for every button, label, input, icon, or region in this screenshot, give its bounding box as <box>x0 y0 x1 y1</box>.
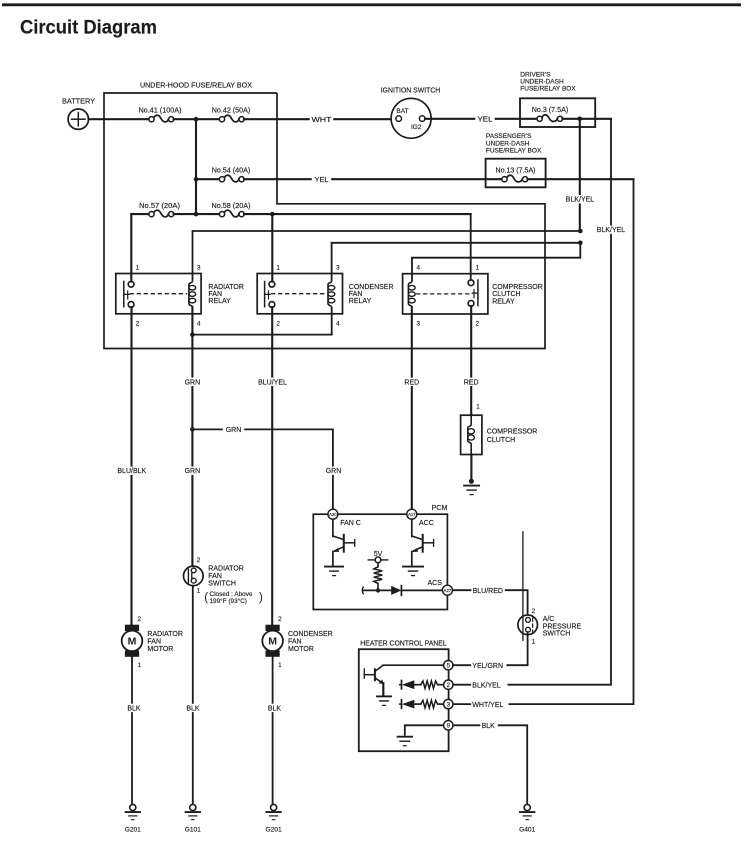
wire fuse No.41 to fuse No.42 <box>174 118 220 120</box>
svg-text:BLK: BLK <box>127 705 141 712</box>
svg-text:YEL: YEL <box>315 177 329 184</box>
label BLK (condenser motor) <box>265 704 283 712</box>
fuse No.13 (7.5A) <box>502 177 507 182</box>
wire GRN: radiator pin4 down to fan switch <box>191 349 193 567</box>
heater terminal 9 <box>444 721 453 730</box>
wire battery to fuse No.41 <box>89 118 149 120</box>
diode (heater panel) <box>400 703 402 705</box>
svg-text:PASSENGER'S: PASSENGER'S <box>486 133 532 140</box>
condenser fan motor brush block top <box>266 625 280 631</box>
PCM transistor FAN C <box>332 519 334 536</box>
svg-text:G101: G101 <box>185 827 201 834</box>
svg-text:BLK: BLK <box>482 723 496 730</box>
ignition switch <box>391 98 431 138</box>
heater terminal 2 <box>444 680 453 689</box>
label YEL/GRN <box>471 661 506 669</box>
label BLK/YEL lower <box>596 225 626 233</box>
relay box compressor clutch relay <box>403 274 488 314</box>
svg-text:MOTOR: MOTOR <box>288 646 314 653</box>
radiator fan motor brush block top <box>125 625 139 631</box>
battery B+ terminal <box>68 109 88 129</box>
svg-text:M: M <box>268 636 277 648</box>
svg-text:RADIATOR: RADIATOR <box>208 284 244 291</box>
label WHT/YEL at heater row <box>471 700 508 708</box>
wire compressor clutch to ground <box>470 455 472 480</box>
svg-text:COMPRESSOR: COMPRESSOR <box>492 284 543 291</box>
svg-text:No.57 (20A): No.57 (20A) <box>139 203 180 210</box>
svg-text:PRESSURE: PRESSURE <box>543 623 582 630</box>
wire BLK/YEL vertical from fuse No.3 junction <box>579 119 581 231</box>
svg-text:1: 1 <box>532 639 536 646</box>
wire FAN C transistor emitter to ground <box>332 552 334 566</box>
heater control panel box <box>359 649 449 751</box>
label BLU/RED <box>471 586 504 594</box>
radiator fan motor brush block bottom <box>125 651 139 657</box>
fuse No.42 (50A) <box>219 117 224 122</box>
fuse No.57 (20A) <box>149 212 154 217</box>
svg-text:G201: G201 <box>125 827 141 834</box>
wire radiator relay pin1 from No.57 row <box>130 214 132 282</box>
svg-text:FAN: FAN <box>349 291 363 298</box>
svg-text:1: 1 <box>138 662 142 669</box>
svg-text:YEL: YEL <box>478 117 493 124</box>
fuse No.41 (100A) <box>149 117 154 122</box>
passenger's under-dash fuse/relay box <box>486 159 546 188</box>
PCM box <box>313 514 447 609</box>
wire BLK/YEL long vertical x611 to heater terminal 2 <box>453 119 611 685</box>
ignition switch IG2 terminal <box>419 116 425 122</box>
radiator fan relay switch contacts <box>128 281 134 287</box>
resistor (5V pull-up) <box>374 567 382 584</box>
svg-text:IG2: IG2 <box>411 124 422 131</box>
PCM transistor ACC <box>411 519 413 536</box>
label BLU/BLK <box>116 467 147 475</box>
label RED (pin2) <box>462 378 481 386</box>
svg-text:A20: A20 <box>329 512 337 517</box>
svg-text:HEATER CONTROL PANEL: HEATER CONTROL PANEL <box>360 641 446 648</box>
svg-text:3: 3 <box>197 264 201 271</box>
svg-text:No.54 (40A): No.54 (40A) <box>212 168 251 175</box>
svg-text:COMPRESSOR: COMPRESSOR <box>487 429 538 436</box>
wire fuse No.13 to corner x633.5 <box>528 178 634 180</box>
junction node condenser pin1 branch <box>270 212 275 217</box>
label GRN (above A20) <box>323 467 344 475</box>
ground G401 <box>524 804 530 810</box>
wire YEL/GRN: terminal 5 to pressure switch <box>453 664 528 666</box>
top rule <box>2 3 741 6</box>
svg-text:4: 4 <box>336 321 340 328</box>
radiator fan switch contacts <box>191 568 196 573</box>
ground G201 left <box>130 804 136 810</box>
svg-text:FAN: FAN <box>208 291 222 298</box>
diode (heater panel) <box>400 684 402 686</box>
compressor clutch box <box>461 415 482 454</box>
radiator fan motor body <box>122 631 143 652</box>
heater panel transistor <box>383 664 443 666</box>
compressor clutch relay coil <box>408 281 412 307</box>
wire BLU/RED: A27 to A/C pressure switch <box>452 590 527 617</box>
svg-text:WHT/YEL: WHT/YEL <box>472 702 503 709</box>
svg-text:G201: G201 <box>266 827 282 834</box>
svg-text:RELAY: RELAY <box>349 298 372 305</box>
wire YEL: IG2 to driver's box fuse No.3 <box>425 118 537 120</box>
wire No.54 row from junction <box>196 178 219 180</box>
svg-text:FAN: FAN <box>288 638 302 645</box>
svg-text:2: 2 <box>447 682 451 689</box>
label GRN (at switch) <box>182 467 203 475</box>
radiator fan relay dashed actuation line <box>130 293 187 295</box>
label BLK (radiator motor) <box>125 704 143 712</box>
svg-text:FUSE/RELAY BOX: FUSE/RELAY BOX <box>520 86 576 93</box>
junction node resistor/ACS <box>376 588 380 592</box>
svg-text:UNDER-HOOD FUSE/RELAY BOX: UNDER-HOOD FUSE/RELAY BOX <box>140 83 252 90</box>
svg-text:CONDENSER: CONDENSER <box>349 284 394 291</box>
svg-text:1: 1 <box>278 662 282 669</box>
svg-text:2: 2 <box>532 608 536 615</box>
radiator fan relay coil <box>189 281 193 307</box>
svg-text:YEL/GRN: YEL/GRN <box>472 663 503 670</box>
ACS wire left bracket <box>362 587 363 595</box>
svg-text:BLK: BLK <box>268 705 282 712</box>
svg-text:3: 3 <box>417 321 421 328</box>
svg-text:1: 1 <box>476 404 480 411</box>
fuse No.3 (7.5A) <box>537 116 542 121</box>
svg-text:ACC: ACC <box>419 520 434 527</box>
svg-text:No.3 (7.5A): No.3 (7.5A) <box>532 107 569 114</box>
radiator fan switch blade <box>187 569 189 583</box>
ground G101 <box>190 804 196 810</box>
svg-text:WHT: WHT <box>312 117 333 124</box>
svg-text:Circuit Diagram: Circuit Diagram <box>20 18 157 39</box>
condenser fan motor body <box>262 631 283 652</box>
label YEL <box>475 115 494 123</box>
wire condenser fan motor to ground G201 <box>272 657 274 805</box>
wire radiator relay pin4 down <box>191 307 193 349</box>
compressor clutch relay switch contacts <box>468 280 474 286</box>
junction node x196 row2 <box>194 177 199 182</box>
junction node radiator pin4 / condenser pin4 <box>190 332 195 337</box>
wire WHT/YEL long vertical x633.5 to heater terminal 3 <box>453 179 634 704</box>
svg-text:CONDENSER: CONDENSER <box>288 631 333 638</box>
junction node at x196 row1 <box>194 117 199 122</box>
svg-text:No.41 (100A): No.41 (100A) <box>139 108 182 115</box>
junction node BLK/YEL branch <box>578 117 583 122</box>
svg-text:9: 9 <box>447 723 451 730</box>
wire GRN branch to PCM FAN C <box>192 429 333 509</box>
svg-text:1: 1 <box>276 264 280 271</box>
label WHT <box>310 115 333 123</box>
relay box condenser fan relay <box>257 274 342 314</box>
junction node x580 y231 <box>578 229 583 234</box>
svg-text:2: 2 <box>197 557 201 564</box>
svg-text:PCM: PCM <box>432 503 448 512</box>
svg-text:1: 1 <box>197 587 201 594</box>
svg-text:RED: RED <box>404 379 419 386</box>
svg-text:No.13 (7.5A): No.13 (7.5A) <box>496 167 536 174</box>
svg-text:BLK/YEL: BLK/YEL <box>566 197 595 204</box>
svg-text:199°F (93°C): 199°F (93°C) <box>210 597 247 605</box>
fuse No.58 (20A) <box>219 212 224 217</box>
svg-text:2: 2 <box>276 321 280 328</box>
svg-text:A27: A27 <box>444 588 452 593</box>
svg-text:MOTOR: MOTOR <box>147 646 173 653</box>
PCM pin A27 (ACS) <box>442 585 452 595</box>
wire fuse No.3 to corner x611 <box>562 118 611 120</box>
wire BLU/YEL: condenser pin2 down to condenser fan motor <box>271 307 273 631</box>
A/C pressure switch blade <box>522 532 524 641</box>
condenser fan relay dashed actuation line <box>271 293 328 295</box>
svg-text:2: 2 <box>138 616 142 623</box>
svg-text:UNDER-DASH: UNDER-DASH <box>486 141 530 148</box>
label BLU/YEL <box>256 378 289 386</box>
svg-text:Closed : Above: Closed : Above <box>210 591 253 598</box>
svg-text:(: ( <box>204 592 208 604</box>
wire RED: compressor relay pin2 down to compressor clutch <box>470 306 472 415</box>
fuse No.54 (40A) <box>219 177 224 182</box>
wire condenser relay pin1 from No.58 row <box>271 214 273 282</box>
compressor clutch relay dashed actuation line <box>416 293 471 295</box>
wire radiator fan motor to ground G201 <box>131 657 133 805</box>
svg-text:RELAY: RELAY <box>492 298 515 305</box>
under-hood fuse/relay box (stepped outline) <box>104 93 545 349</box>
wire heater transistor emitter to ground <box>382 683 384 695</box>
wire ACS internal <box>363 589 391 591</box>
wire YEL: fuse No.54 to passenger's box fuse No.13 <box>244 178 502 180</box>
junction node GRN branch <box>190 427 195 432</box>
svg-text:3: 3 <box>447 702 451 709</box>
svg-text:IGNITION SWITCH: IGNITION SWITCH <box>381 87 441 94</box>
resistor (heater panel) <box>421 681 438 689</box>
svg-text:BLK/YEL: BLK/YEL <box>472 682 501 689</box>
svg-text:): ) <box>259 592 263 604</box>
heater terminal 3 <box>444 699 453 708</box>
svg-text:FAN: FAN <box>147 638 161 645</box>
wire condenser relay pin3 riser <box>332 243 581 281</box>
svg-text:1: 1 <box>476 264 480 271</box>
wire BLK: terminal 9 to ground G401 <box>453 725 527 804</box>
wire ACC transistor emitter to ground <box>411 552 413 566</box>
diode (ACS line) <box>391 586 401 595</box>
PCM pin A20 (FAN C) <box>328 509 338 519</box>
relay box radiator fan relay <box>116 274 201 314</box>
wire compressor relay pin1 up to No.58 row <box>470 214 472 280</box>
svg-text:RELAY: RELAY <box>208 298 231 305</box>
svg-text:BLU/RED: BLU/RED <box>473 588 503 595</box>
svg-text:2: 2 <box>278 616 282 623</box>
svg-text:RED: RED <box>464 379 479 386</box>
svg-text:BLU/YEL: BLU/YEL <box>258 379 287 386</box>
radiator fan switch <box>184 566 204 586</box>
svg-text:FAN C: FAN C <box>340 520 361 527</box>
svg-text:BLU/BLK: BLU/BLK <box>117 468 146 475</box>
condenser fan relay coil <box>328 281 332 307</box>
svg-text:A17: A17 <box>408 512 416 517</box>
wire row3 No.57/No.58 <box>131 213 149 215</box>
svg-text:No.58 (20A): No.58 (20A) <box>212 203 251 210</box>
A/C pressure switch <box>518 615 538 635</box>
svg-text:BAT: BAT <box>396 108 408 115</box>
ground FAN C transistor <box>325 566 343 568</box>
svg-text:SWITCH: SWITCH <box>208 580 236 587</box>
label GRN (on branch wire) <box>223 425 244 433</box>
junction node x196 row3 <box>194 212 199 217</box>
wire BLU/BLK: radiator pin2 down to radiator fan motor <box>130 307 132 631</box>
wire condenser pin4 link <box>192 307 331 335</box>
ground ACC transistor <box>403 566 423 568</box>
svg-text:GRN: GRN <box>185 379 201 386</box>
svg-text:RADIATOR: RADIATOR <box>208 566 244 573</box>
svg-text:5: 5 <box>447 663 451 670</box>
PCM pin A17 (ACC) <box>407 509 417 519</box>
svg-text:GRN: GRN <box>185 468 201 475</box>
svg-text:FUSE/RELAY BOX: FUSE/RELAY BOX <box>486 148 542 155</box>
ground heater terminal 9 <box>398 736 413 738</box>
svg-text:2: 2 <box>476 321 480 328</box>
svg-text:3: 3 <box>336 264 340 271</box>
svg-text:BATTERY: BATTERY <box>62 98 95 105</box>
svg-text:GRN: GRN <box>326 468 342 475</box>
svg-text:GRN: GRN <box>226 427 242 434</box>
svg-text:CLUTCH: CLUTCH <box>487 437 515 444</box>
junction node x580 y242.8 <box>578 241 583 246</box>
ground G201 mid <box>271 804 277 810</box>
A/C pressure switch contacts <box>526 618 531 623</box>
wire resistor to ACS line <box>377 583 379 590</box>
wire radiator relay pin3 riser <box>193 231 581 281</box>
wire No.58 to compressor relay pin1 corner <box>244 213 471 215</box>
label BLK/YEL at heater row <box>471 681 507 689</box>
label YEL row2 <box>312 175 331 183</box>
svg-text:M: M <box>128 636 137 648</box>
svg-text:CLUTCH: CLUTCH <box>492 291 520 298</box>
wire heater terminal 9 to internal ground <box>405 725 444 735</box>
svg-text:4: 4 <box>417 264 421 271</box>
wire fan switch to ground G101 <box>192 586 194 805</box>
wire RED: compressor relay pin3 down to PCM ACC <box>411 307 413 509</box>
svg-text:G401: G401 <box>519 827 535 834</box>
ground heater transistor <box>377 695 391 697</box>
svg-text:RADIATOR: RADIATOR <box>147 631 183 638</box>
label BLK (G401) <box>480 721 497 729</box>
svg-text:BLK: BLK <box>186 705 200 712</box>
label GRN (relay output) <box>182 378 203 386</box>
condenser fan motor brush block bottom <box>266 651 280 657</box>
compressor clutch coil <box>468 415 471 454</box>
label BLK/YEL upper <box>565 195 595 203</box>
heater terminal 5 <box>444 661 453 670</box>
resistor (heater panel) <box>421 700 438 708</box>
svg-text:ACS: ACS <box>428 580 443 587</box>
label BLK (fan switch) <box>184 704 202 712</box>
svg-text:SWITCH: SWITCH <box>543 631 571 638</box>
svg-text:BLK/YEL: BLK/YEL <box>597 227 626 234</box>
condenser fan relay switch contacts <box>269 281 275 287</box>
label RED (pin3) <box>402 378 421 386</box>
svg-text:2: 2 <box>136 321 140 328</box>
svg-text:1: 1 <box>136 264 140 271</box>
svg-text:UNDER-DASH: UNDER-DASH <box>520 79 564 86</box>
wire pressure switch pin1 down to YEL/GRN <box>527 632 529 665</box>
vertical junction wire x196 <box>195 119 197 214</box>
ignition switch BAT terminal <box>396 116 402 122</box>
svg-text:A/C: A/C <box>543 616 555 623</box>
wire WHT: fuse No.42 to ignition switch BAT <box>244 118 396 120</box>
svg-text:FAN: FAN <box>208 573 222 580</box>
wire compressor relay pin4 riser <box>412 243 580 281</box>
driver's under-dash fuse/relay box <box>520 98 595 127</box>
svg-text:DRIVER'S: DRIVER'S <box>520 72 551 79</box>
svg-text:4: 4 <box>197 321 201 328</box>
svg-text:No.42 (50A): No.42 (50A) <box>212 108 251 115</box>
ground node compressor clutch <box>469 479 474 484</box>
